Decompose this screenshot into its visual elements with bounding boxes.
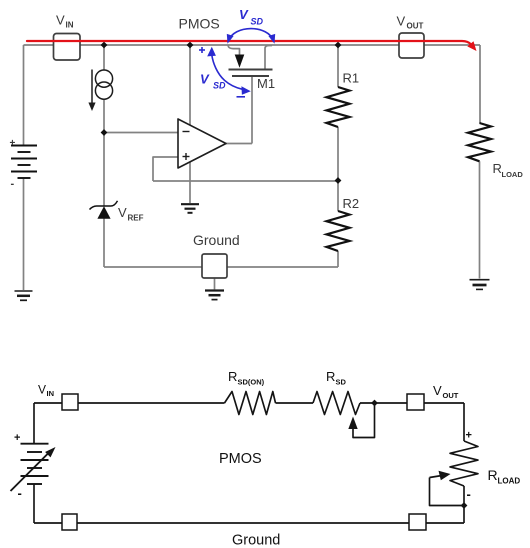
svg-text:V: V bbox=[433, 383, 442, 398]
svg-text:-: - bbox=[467, 487, 471, 502]
svg-text:SD: SD bbox=[336, 378, 347, 387]
svg-text:OUT: OUT bbox=[443, 391, 459, 400]
svg-text:+: + bbox=[466, 430, 472, 442]
svg-text:R: R bbox=[493, 161, 502, 176]
svg-text:R: R bbox=[228, 369, 237, 384]
svg-text:V: V bbox=[38, 383, 46, 397]
svg-text:R: R bbox=[326, 369, 335, 384]
svg-text:PMOS: PMOS bbox=[219, 451, 262, 467]
svg-text:-: - bbox=[18, 486, 22, 501]
svg-text:SD(ON): SD(ON) bbox=[238, 378, 265, 387]
svg-text:SD: SD bbox=[251, 17, 264, 27]
svg-text:V: V bbox=[118, 205, 127, 220]
svg-text:R1: R1 bbox=[343, 71, 360, 86]
svg-text:V: V bbox=[397, 14, 406, 29]
svg-text:V: V bbox=[56, 13, 65, 28]
svg-text:IN: IN bbox=[47, 389, 55, 398]
svg-text:LOAD: LOAD bbox=[502, 170, 524, 179]
svg-text:OUT: OUT bbox=[407, 22, 424, 31]
svg-text:LOAD: LOAD bbox=[498, 477, 521, 486]
svg-text:Ground: Ground bbox=[232, 533, 280, 548]
svg-text:-: - bbox=[11, 178, 15, 190]
svg-text:M1: M1 bbox=[257, 76, 275, 91]
svg-text:Ground: Ground bbox=[193, 232, 240, 248]
svg-text:+: + bbox=[14, 432, 20, 444]
svg-text:+: + bbox=[10, 138, 16, 149]
svg-text:V: V bbox=[239, 7, 249, 22]
svg-text:IN: IN bbox=[66, 21, 74, 30]
svg-text:REF: REF bbox=[128, 214, 144, 223]
svg-text:SD: SD bbox=[213, 81, 226, 91]
svg-text:PMOS: PMOS bbox=[179, 16, 220, 32]
svg-text:R2: R2 bbox=[343, 196, 360, 211]
svg-text:R: R bbox=[488, 467, 498, 483]
svg-text:V: V bbox=[200, 72, 210, 87]
